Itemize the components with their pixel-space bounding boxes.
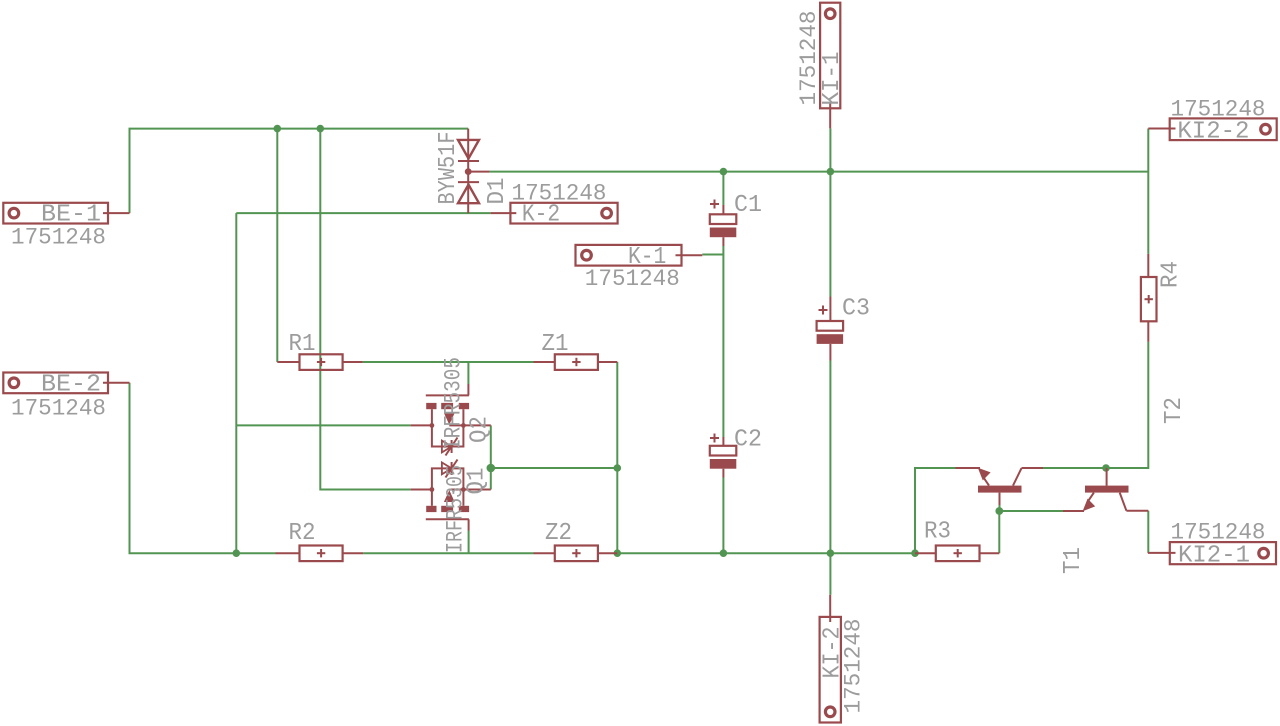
junction node rail-R1 bbox=[274, 125, 282, 133]
transistor Q1 MOSFET bbox=[411, 460, 491, 531]
wire top rail from D1 to right column bbox=[490, 171, 1149, 173]
wire branch down to Q2 gate bbox=[467, 362, 469, 384]
wire BE-1 up to top-left rail and across to D1 anode bbox=[130, 129, 469, 214]
connector KI-1 bbox=[819, 3, 846, 129]
svg-text:1751248: 1751248 bbox=[796, 11, 823, 106]
svg-text:C2: C2 bbox=[734, 427, 762, 454]
transistor T2 bbox=[956, 468, 1044, 505]
wire rail down to C1 bbox=[722, 172, 724, 205]
wire T2 collector to T1 node bbox=[1041, 467, 1106, 469]
wire bus from KI-2 node down stub bbox=[829, 553, 831, 595]
junction node rail-C1 bbox=[720, 168, 728, 176]
svg-text:KI-1: KI-1 bbox=[819, 52, 846, 106]
wire R1 left branch down from rail bbox=[276, 129, 278, 362]
resistor R1 bbox=[277, 354, 362, 370]
wire bus between Z2 and R3 bbox=[617, 552, 915, 554]
wire rail down to C3 bbox=[829, 172, 831, 297]
svg-text:C3: C3 bbox=[842, 296, 870, 323]
transistor T1 bbox=[1063, 468, 1148, 511]
wire bus between R2 and Z2 bbox=[363, 552, 533, 554]
resistor R3 bbox=[915, 546, 999, 562]
resistor R2 bbox=[276, 546, 364, 562]
wire K-2 net horizontal bbox=[236, 212, 490, 214]
wire T1 collector down to KI2-1 bbox=[1147, 511, 1149, 553]
junction node bus K-2 net bbox=[233, 549, 241, 557]
wire R3 right up to T2 base node bbox=[998, 511, 1000, 553]
junction node T2 base bbox=[995, 507, 1003, 515]
wire branch to Q2 left pin bbox=[236, 424, 410, 426]
connector KI-2 bbox=[820, 595, 847, 723]
svg-text:1751248: 1751248 bbox=[841, 619, 868, 714]
svg-text:Z2: Z2 bbox=[545, 520, 572, 547]
svg-text:R4: R4 bbox=[1158, 261, 1185, 288]
wire Q2 source to Q1 source vertical bbox=[490, 425, 492, 489]
svg-text:Z1: Z1 bbox=[542, 331, 569, 358]
wire R1 to Z1 bbox=[363, 361, 534, 363]
transistor Q2 MOSFET bbox=[411, 384, 491, 456]
capacitor C3 bbox=[817, 297, 844, 361]
wire K-2 net vertical down to bottom bus bbox=[235, 213, 237, 553]
wire Q1 gate down to bus bbox=[468, 531, 470, 554]
wire T2 emitter wire and drop to bus bbox=[915, 468, 956, 553]
svg-text:R2: R2 bbox=[289, 520, 316, 547]
svg-text:Q2: Q2 bbox=[467, 416, 494, 443]
connector K-2 bbox=[491, 202, 618, 229]
svg-text:R3: R3 bbox=[924, 519, 951, 546]
wire bottom bus left segment bbox=[130, 383, 276, 553]
capacitor C2 bbox=[710, 434, 737, 478]
connector BE-1 bbox=[3, 202, 129, 229]
junction node Z rail sources bbox=[614, 464, 622, 472]
svg-text:1751248: 1751248 bbox=[1171, 96, 1266, 123]
svg-text:IRFR5305: IRFR5305 bbox=[443, 465, 470, 553]
wire KI-1 down to rail bbox=[829, 128, 831, 171]
connector KI2-1 bbox=[1148, 542, 1276, 569]
svg-text:1751248: 1751248 bbox=[1171, 519, 1266, 546]
svg-text:T1: T1 bbox=[1060, 547, 1087, 574]
wire Z1 right down to bus bbox=[616, 362, 618, 553]
junction node T1 top bbox=[1102, 464, 1110, 472]
diode D1 dual common-cathode bbox=[458, 129, 490, 214]
capacitor C1 bbox=[710, 200, 737, 247]
wire Q1 left branch down from rail through R1 box bbox=[320, 129, 410, 490]
svg-text:BE-2: BE-2 bbox=[41, 371, 101, 398]
svg-text:R1: R1 bbox=[289, 331, 316, 358]
wire C1 bottom to C2 top bbox=[722, 246, 724, 437]
svg-text:D1: D1 bbox=[484, 178, 511, 205]
junction node bus C2 bbox=[720, 549, 728, 557]
connector K-1 bbox=[576, 244, 703, 271]
svg-text:KI2-1: KI2-1 bbox=[1178, 543, 1250, 570]
svg-text:BYW51F: BYW51F bbox=[435, 132, 462, 205]
junction node rail-Q1 bbox=[317, 125, 325, 133]
diode Z2 bbox=[534, 546, 618, 562]
svg-text:1751248: 1751248 bbox=[11, 396, 106, 423]
svg-text:1751248: 1751248 bbox=[512, 181, 607, 208]
wire C3 bottom to bus bbox=[829, 361, 831, 554]
junction node sources bbox=[487, 464, 496, 473]
wire C2 bottom to bus bbox=[722, 478, 724, 554]
junction node rail-KI1-C3 bbox=[827, 168, 835, 176]
connector KI2-2 bbox=[1148, 118, 1276, 145]
wire R4 bottom to T junction node bbox=[1106, 342, 1148, 468]
wire sources to Z rail bbox=[491, 467, 618, 469]
svg-text:IRFR5305: IRFR5305 bbox=[441, 357, 468, 450]
svg-text:T2: T2 bbox=[1161, 397, 1188, 424]
svg-text:1751248: 1751248 bbox=[585, 266, 680, 293]
junction node bus Z2 bbox=[614, 549, 622, 557]
wire K-1 to C1/C2 node bbox=[702, 254, 723, 256]
connector BE-2 bbox=[3, 371, 129, 398]
svg-text:1751248: 1751248 bbox=[11, 225, 106, 252]
wire base node to T1 emitter bbox=[1000, 505, 1064, 511]
junction node bus R3 bbox=[911, 549, 919, 557]
junction node bus KI-2 bbox=[827, 549, 835, 557]
diode Z1 bbox=[534, 354, 618, 370]
resistor R4 bbox=[1141, 254, 1157, 342]
svg-text:C1: C1 bbox=[734, 192, 762, 219]
wire KI2-2 vertical down through rail to R4 bbox=[1147, 129, 1149, 254]
